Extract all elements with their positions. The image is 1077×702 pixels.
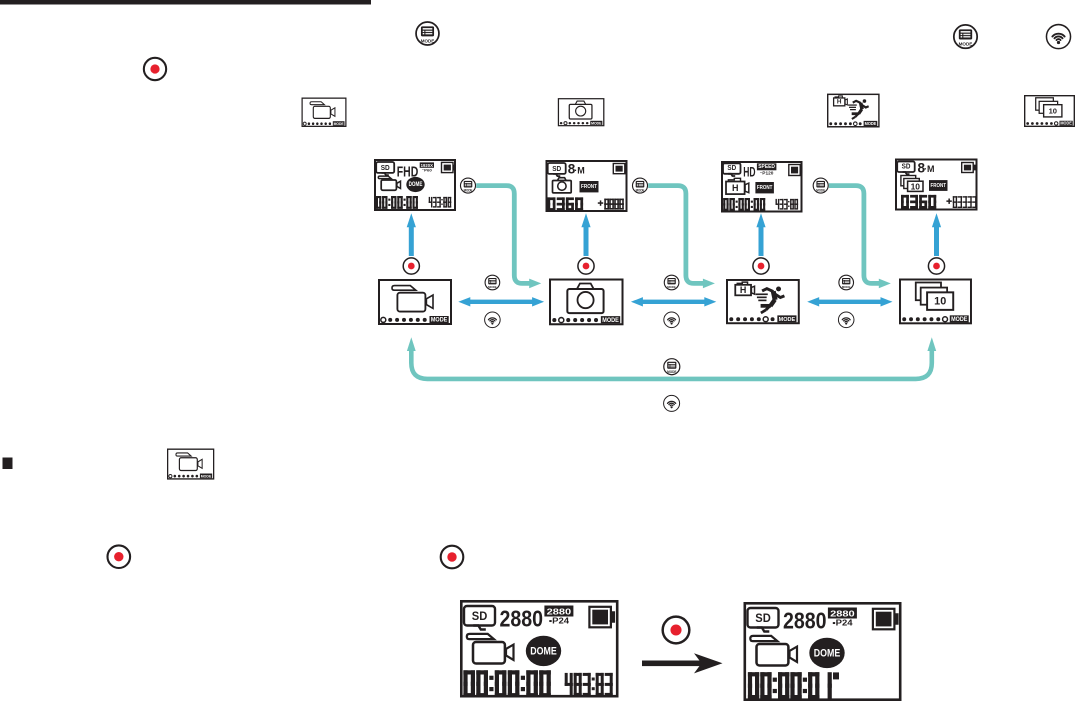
- record button (step 2): [441, 546, 464, 569]
- teal loop arrow: [411, 350, 932, 379]
- wifi circle between boxes 2: [664, 312, 680, 328]
- record button icon (top paragraph 2): [144, 58, 166, 80]
- svg-text:SD: SD: [381, 163, 390, 172]
- MODE circle between boxes 3: [839, 275, 854, 290]
- svg-text:MODE: MODE: [842, 285, 851, 289]
- mode box: photo: [550, 280, 623, 325]
- svg-text:DOME: DOME: [814, 647, 841, 659]
- wifi circle between boxes 1: [485, 312, 501, 328]
- LCD screen: high-speed mode: [722, 162, 802, 212]
- svg-text:HD: HD: [743, 163, 755, 179]
- wifi button icon (top right): [1046, 25, 1070, 49]
- blue up arrow 4: [934, 226, 939, 256]
- MODE circle between boxes 2: [664, 275, 679, 290]
- svg-text:DOME: DOME: [409, 182, 423, 188]
- svg-text:MODE: MODE: [636, 188, 645, 192]
- svg-text:MODE: MODE: [667, 285, 676, 289]
- wifi circle between boxes 3: [838, 312, 854, 328]
- svg-text:MODE: MODE: [959, 42, 973, 48]
- svg-text:SD: SD: [472, 609, 488, 623]
- blue up arrow 2: [584, 226, 589, 256]
- LCD screen: burst mode: [896, 160, 977, 210]
- black arrow: [642, 661, 703, 667]
- LCD screen: recording: [745, 603, 900, 699]
- LCD screen: video mode: [375, 160, 455, 210]
- blue double arrow 3: [818, 300, 882, 304]
- blue double arrow 2: [641, 300, 705, 304]
- svg-text:2880: 2880: [500, 606, 544, 632]
- MODE circle transition 1: [460, 178, 475, 193]
- record button (step 1): [108, 545, 131, 568]
- svg-text:DOME: DOME: [530, 645, 557, 657]
- record button (start recording): [663, 617, 690, 644]
- MODE circle bottom loop: [664, 359, 680, 375]
- MODE button icon (top right): [954, 25, 977, 48]
- svg-text:10: 10: [911, 182, 921, 192]
- mode box: high-speed: [727, 280, 799, 323]
- svg-text:·M: ·M: [924, 164, 935, 174]
- svg-text:▪P24: ▪P24: [549, 617, 570, 626]
- teal curved arrow 1: [476, 186, 530, 284]
- svg-text:SPEED: SPEED: [758, 164, 775, 170]
- teal curved arrow 3: [829, 186, 880, 284]
- svg-text:⁻P60: ⁻P60: [422, 168, 432, 173]
- inline icon: video mode (section heading): [168, 449, 214, 479]
- section bullet square: [3, 458, 13, 470]
- svg-text:FRONT: FRONT: [930, 183, 946, 189]
- blue up arrow 1: [409, 226, 414, 256]
- MODE circle transition 3: [813, 178, 828, 193]
- inline icon: burst mode: [1025, 96, 1075, 127]
- record button 4: [928, 258, 944, 274]
- svg-text:SD: SD: [755, 611, 771, 625]
- svg-text:H: H: [732, 183, 739, 193]
- LCD screen: photo mode: [547, 161, 627, 211]
- svg-text:MODE: MODE: [464, 188, 473, 192]
- svg-text:MODE: MODE: [816, 188, 825, 192]
- svg-text:2880: 2880: [830, 609, 855, 619]
- record button 3: [753, 258, 769, 274]
- inline icon: photo mode: [558, 99, 603, 126]
- MODE button icon (top paragraph 1): [416, 22, 439, 45]
- svg-text:MODE: MODE: [667, 370, 677, 374]
- svg-text:⁻P120: ⁻P120: [760, 171, 774, 176]
- mode box: video: [379, 280, 451, 324]
- svg-text:MODE: MODE: [421, 38, 435, 44]
- teal curved arrow 2: [648, 186, 704, 284]
- svg-text:FRONT: FRONT: [581, 184, 597, 190]
- svg-text:2880: 2880: [783, 608, 827, 634]
- MODE circle transition 2: [632, 178, 647, 193]
- inline icon: video mode: [302, 98, 346, 126]
- inline icon: high-speed mode: [828, 94, 879, 126]
- blue double arrow 1: [469, 300, 534, 304]
- MODE circle between boxes 1: [485, 275, 500, 290]
- LCD screen: recording standby: [461, 601, 617, 696]
- mode box: burst: [900, 279, 971, 323]
- svg-text:▪P24: ▪P24: [832, 619, 853, 628]
- header bar: [0, 0, 371, 5]
- svg-text:SD: SD: [902, 163, 911, 170]
- svg-text:·M: ·M: [574, 165, 585, 175]
- svg-text:MODE: MODE: [488, 285, 497, 289]
- record button 2: [578, 258, 594, 274]
- svg-text:FRONT: FRONT: [757, 185, 773, 191]
- record button 1: [403, 258, 419, 274]
- svg-text:SD: SD: [727, 165, 736, 172]
- wifi circle bottom loop: [664, 395, 680, 411]
- blue up arrow 3: [759, 226, 764, 256]
- svg-text:2880: 2880: [547, 607, 572, 617]
- svg-text:SD: SD: [552, 164, 561, 173]
